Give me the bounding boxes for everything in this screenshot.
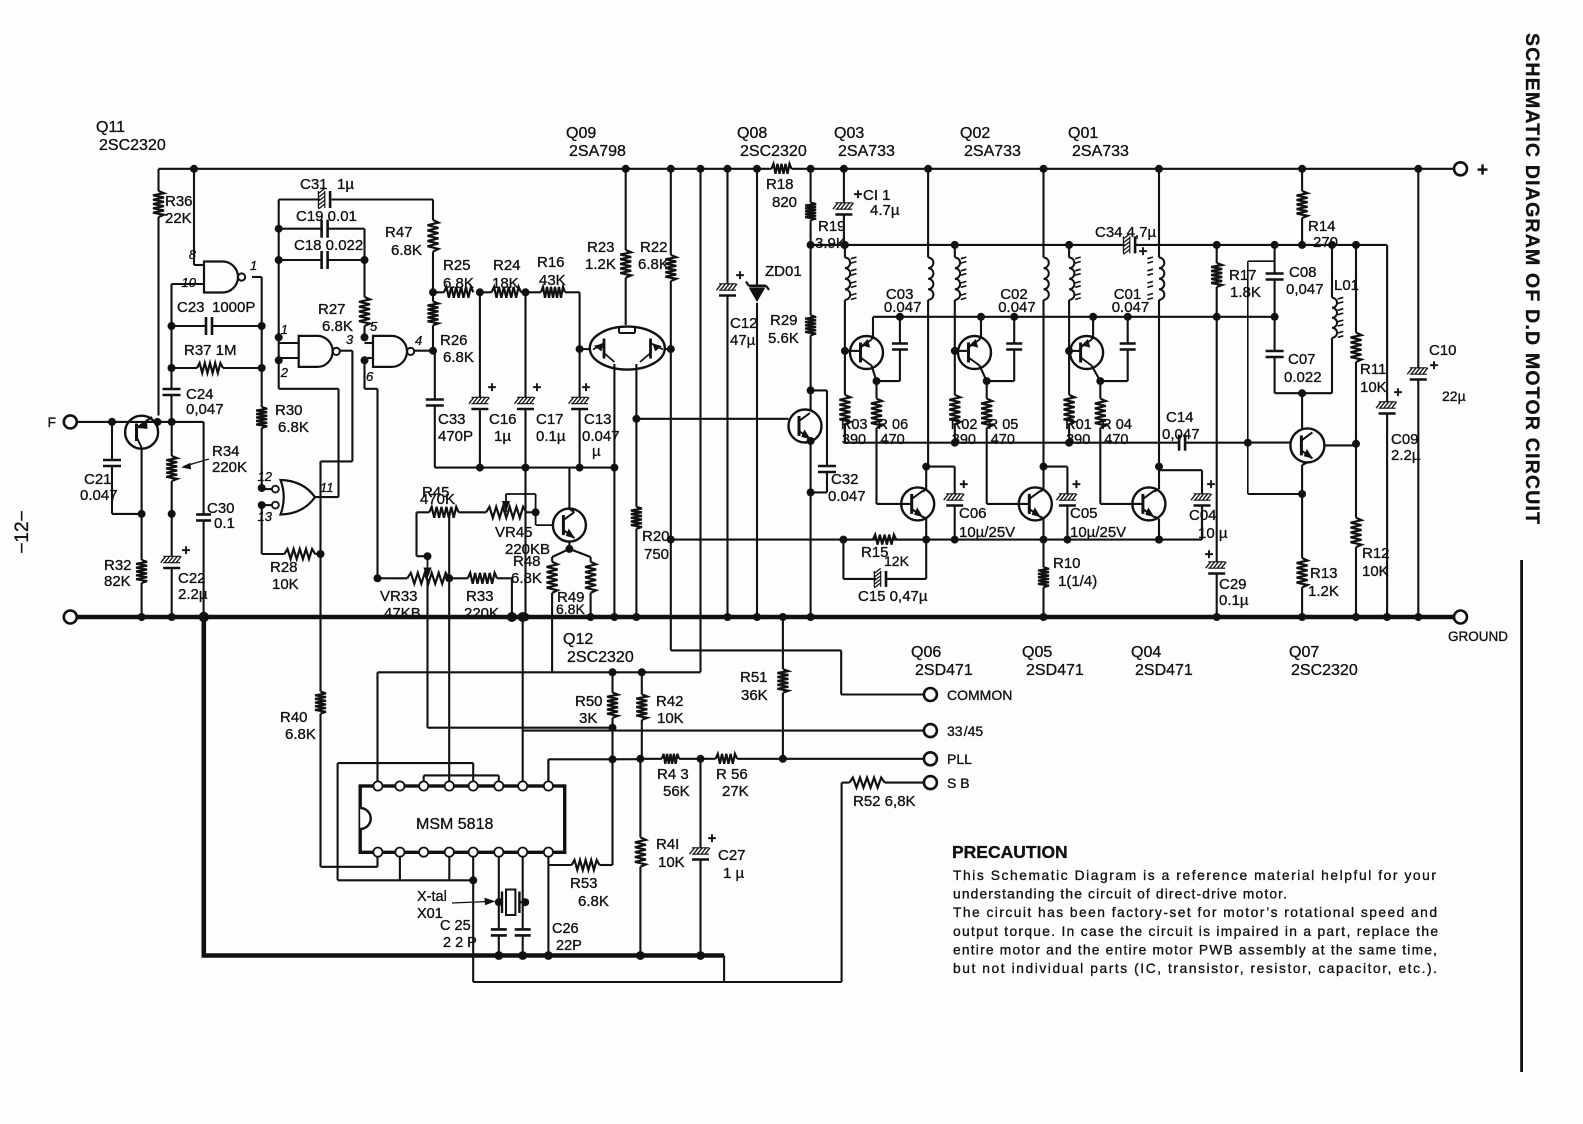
resistor R24 — [480, 287, 529, 298]
svg-text:R19: R19 — [818, 218, 846, 235]
resistor R01 — [1064, 351, 1092, 448]
label schematic title — [1521, 33, 1543, 525]
wire emitter row — [138, 510, 176, 518]
svg-text:C16: C16 — [489, 411, 517, 428]
svg-text:+: + — [1207, 476, 1216, 493]
capacitor C23 — [168, 299, 266, 335]
svg-text:C15 0,47µ: C15 0,47µ — [858, 588, 928, 605]
wire top supply rail — [159, 168, 1455, 170]
terminal 33/45 — [924, 723, 984, 739]
wire collector3 — [1092, 366, 1101, 399]
svg-text:1.2K: 1.2K — [585, 256, 616, 273]
svg-text:X01: X01 — [417, 906, 443, 922]
resistor R26 — [428, 292, 474, 366]
svg-text:C05: C05 — [1070, 505, 1098, 522]
wire nand3 out — [414, 347, 437, 355]
wire pin7b col — [518, 612, 528, 929]
resistor R02 — [949, 351, 977, 448]
resistor R52 — [842, 778, 924, 810]
node bus C13 — [576, 464, 584, 472]
svg-text:12: 12 — [258, 469, 273, 484]
wire emitter2 top — [980, 317, 982, 340]
resistor R25 — [433, 254, 565, 298]
label Q05 — [1022, 644, 1084, 679]
resistor R49 — [556, 557, 596, 621]
wire Q09 bottom right — [635, 364, 637, 419]
node erow c3 — [1089, 313, 1097, 321]
svg-text:2SC2320: 2SC2320 — [1291, 662, 1358, 679]
wire Q12 emitter split — [552, 542, 591, 557]
svg-text:C12: C12 — [730, 315, 758, 332]
resistor R16 — [529, 287, 580, 349]
svg-text:R 04: R 04 — [1101, 417, 1132, 433]
capacitor C18 — [275, 237, 369, 269]
resistor R20 — [631, 419, 670, 621]
svg-text:22P: 22P — [556, 938, 582, 954]
transistor Q05 lower — [987, 487, 1052, 520]
node Q11 collector — [154, 418, 162, 426]
resistor R 06 — [871, 399, 908, 504]
node collector3 — [1096, 377, 1104, 385]
svg-text:PRECAUTION: PRECAUTION — [952, 842, 1068, 862]
svg-text:C10: C10 — [1429, 342, 1457, 359]
svg-text:C07: C07 — [1288, 351, 1316, 368]
svg-text:1: 1 — [250, 258, 257, 273]
svg-text:1µ: 1µ — [337, 176, 354, 193]
label Q12 — [563, 631, 634, 666]
capacitor C22 — [161, 514, 208, 617]
svg-text:220K: 220K — [464, 605, 499, 622]
svg-text:2SA798: 2SA798 — [569, 143, 626, 160]
capacitor C16 — [469, 292, 517, 467]
svg-text:+: + — [1072, 476, 1081, 493]
resistor R 04 — [1095, 399, 1132, 504]
node R17 erow — [1213, 313, 1221, 321]
svg-text:750: 750 — [644, 546, 669, 563]
svg-text:6.8K: 6.8K — [578, 893, 609, 910]
svg-text:C33: C33 — [438, 411, 466, 428]
wire bridge pins3-6 — [424, 775, 499, 781]
wire lower collector2 — [1040, 463, 1048, 492]
wire bus C33 — [435, 467, 615, 469]
wire pin8 — [194, 169, 204, 265]
svg-text:VR45: VR45 — [495, 524, 533, 541]
svg-text:R 56: R 56 — [716, 766, 748, 783]
wire Q09 right lead — [665, 345, 675, 353]
svg-text:R24: R24 — [493, 257, 521, 274]
potentiometer VR45 — [486, 494, 550, 558]
resistor R37 — [168, 326, 266, 373]
wire second rail — [811, 244, 1388, 246]
wire R52 drop — [473, 783, 841, 982]
label Q07 — [1289, 644, 1358, 679]
wire R0x bus — [845, 424, 1179, 443]
node base3 — [1065, 347, 1073, 355]
node Q08 base line — [632, 415, 640, 423]
svg-text:R4 3: R4 3 — [657, 766, 689, 783]
wire PLL line — [548, 755, 640, 786]
wire R30 to R28 — [262, 505, 285, 554]
svg-text:X-tal: X-tal — [417, 889, 447, 905]
svg-text:R32: R32 — [104, 557, 132, 574]
svg-text:Q07: Q07 — [1289, 644, 1319, 661]
wire collector2 jog — [987, 355, 1015, 381]
svg-text:C21: C21 — [84, 471, 112, 488]
svg-text:C26: C26 — [552, 921, 579, 937]
crystal X01 — [417, 857, 529, 929]
svg-text:GROUND: GROUND — [1448, 629, 1508, 644]
svg-text:470: 470 — [991, 432, 1015, 448]
potentiometer VR33 wiper — [424, 556, 431, 577]
svg-text:R 06: R 06 — [878, 417, 909, 433]
wire C-jog2 — [1044, 466, 1068, 468]
node C21 tap — [108, 418, 116, 426]
node bus R01 — [1065, 439, 1073, 447]
wire emitter3 top — [1092, 317, 1094, 340]
svg-text:R22: R22 — [640, 239, 668, 256]
svg-text:+: + — [533, 379, 542, 396]
terminal ground left — [64, 611, 77, 624]
svg-text:1.2K: 1.2K — [1308, 583, 1339, 600]
node R47 R25 — [429, 288, 437, 296]
inductor phase coil A1 — [845, 245, 857, 351]
label Q02 — [960, 125, 1021, 160]
node erow c2 — [977, 313, 985, 321]
terminal COMMON — [924, 687, 1012, 703]
svg-text:8: 8 — [189, 247, 197, 262]
wire thick ground branch — [202, 617, 725, 956]
capacitor C34 — [1095, 224, 1157, 260]
wire coilB1 riser — [924, 165, 932, 258]
svg-text:R20: R20 — [642, 528, 670, 545]
svg-text:ZD01: ZD01 — [765, 263, 802, 280]
capacitor C26 — [515, 921, 582, 960]
node bus C16 — [476, 464, 484, 472]
label C05 — [1070, 505, 1126, 541]
wire wiper row — [428, 727, 613, 729]
svg-text:R30: R30 — [275, 402, 303, 419]
wire emitter1 top — [872, 317, 874, 340]
svg-text:MSM 5818: MSM 5818 — [416, 816, 493, 833]
resistor R34 — [166, 422, 247, 514]
svg-text:Q09: Q09 — [566, 125, 596, 142]
svg-text:470P: 470P — [438, 428, 473, 445]
svg-text:3: 3 — [346, 332, 354, 347]
resistor R53 — [548, 860, 608, 910]
svg-text:R29: R29 — [770, 312, 798, 329]
svg-text:C06: C06 — [959, 505, 987, 522]
resistor R45 — [417, 484, 487, 518]
capacitor C09 — [1376, 384, 1421, 621]
svg-text:10µ/25V: 10µ/25V — [959, 524, 1015, 541]
svg-text:10K: 10K — [1360, 379, 1387, 396]
wire R45 left drop — [417, 512, 432, 560]
node base1 — [841, 347, 849, 355]
svg-text:Q11: Q11 — [96, 119, 125, 136]
wire R22 col down common — [670, 349, 672, 650]
node R34 top — [168, 418, 176, 426]
svg-text:2SA733: 2SA733 — [838, 143, 895, 160]
svg-text:Q05: Q05 — [1022, 644, 1052, 661]
wire R28 down to R40 — [319, 554, 321, 692]
capacitor C14 — [1162, 409, 1248, 451]
svg-text:R26: R26 — [440, 332, 468, 349]
transistor Q07 — [1290, 393, 1324, 462]
node bus C17 — [522, 464, 530, 472]
wire collector1 — [872, 366, 877, 399]
svg-text:2 2 P: 2 2 P — [443, 935, 477, 951]
svg-text:1µ: 1µ — [494, 428, 511, 445]
svg-text:Q12: Q12 — [563, 631, 593, 648]
node ground C22 — [168, 613, 176, 621]
svg-text:10K: 10K — [658, 854, 685, 871]
resistor R 05 — [981, 399, 1018, 504]
svg-text:C09: C09 — [1391, 431, 1419, 448]
label R25 value — [0, 0, 1, 1]
svg-text:56K: 56K — [663, 783, 690, 800]
svg-text:2: 2 — [280, 365, 289, 380]
capacitor C05 — [1056, 467, 1081, 544]
node coil1 rail2 — [841, 241, 849, 249]
node R42 PLL — [636, 755, 644, 763]
nand gate U1b — [275, 322, 354, 380]
wire C-jog3 — [1159, 467, 1202, 471]
label R45 value — [0, 0, 1, 1]
terminal PLL — [924, 751, 972, 767]
capacitor C31 — [279, 176, 433, 209]
label Q09 — [566, 125, 626, 160]
svg-text:C32: C32 — [831, 471, 859, 488]
node R51 PLL — [779, 755, 787, 763]
capacitor C08 — [1266, 241, 1324, 317]
svg-text:S B: S B — [947, 775, 970, 791]
node Q08 collector — [807, 386, 815, 394]
inductor phase coil A3 — [1069, 245, 1081, 351]
capacitor C15 — [843, 540, 927, 605]
resistor R15 — [839, 535, 926, 569]
svg-text:6.8K: 6.8K — [391, 242, 422, 259]
resistor R33 — [449, 573, 517, 622]
wire lower emitter1 — [922, 517, 930, 544]
svg-text:R25: R25 — [443, 257, 471, 274]
node R24 R16 — [522, 288, 530, 296]
svg-text:47µ: 47µ — [730, 332, 756, 349]
svg-text:6.8K: 6.8K — [285, 726, 316, 743]
resistor R41 — [635, 759, 685, 960]
resistor R36 — [153, 169, 193, 416]
resistor R18 — [766, 164, 797, 211]
node coil2 rail2 — [951, 241, 959, 249]
svg-text:R51: R51 — [740, 669, 768, 686]
wire common route — [671, 650, 924, 694]
transistor Q01 upper — [1069, 336, 1103, 369]
svg-text:Q04: Q04 — [1131, 644, 1161, 661]
svg-text:PLL: PLL — [947, 751, 972, 767]
wire VR33R down pin4 — [448, 578, 450, 786]
svg-text:1(1/4): 1(1/4) — [1058, 573, 1097, 590]
wire Q07 base bus — [1248, 442, 1291, 444]
resistor R28 — [270, 549, 325, 593]
wire VR33 left — [374, 574, 391, 582]
svg-text:0.047: 0.047 — [828, 488, 866, 505]
wire coilB2 riser — [1040, 165, 1048, 258]
wire R17 col down — [1216, 317, 1218, 562]
svg-text:F: F — [47, 414, 56, 430]
svg-text:1: 1 — [281, 322, 288, 337]
svg-text:output torque. In case the cir: output torque. In case the circuit is im… — [953, 924, 1438, 939]
svg-text:Q01: Q01 — [1068, 125, 1098, 142]
svg-text:470: 470 — [1104, 432, 1128, 448]
capacitor C29 — [1205, 546, 1249, 621]
resistor R42 — [636, 672, 683, 758]
svg-text:+: + — [488, 379, 497, 396]
svg-text:C08: C08 — [1289, 264, 1317, 281]
svg-text:R17: R17 — [1229, 267, 1257, 284]
svg-text:R11: R11 — [1360, 361, 1386, 378]
svg-text:6.8K: 6.8K — [443, 349, 474, 366]
svg-text:R12: R12 — [1362, 545, 1390, 562]
gate U1d nor — [258, 469, 334, 524]
svg-text:+: + — [1394, 384, 1403, 401]
svg-text:4.7µ: 4.7µ — [870, 202, 900, 219]
svg-text:R27: R27 — [318, 301, 346, 318]
svg-text:10K: 10K — [272, 576, 299, 593]
terminal ground right — [1448, 611, 1508, 645]
node bus Q07base — [1244, 439, 1252, 447]
svg-text:13: 13 — [258, 509, 273, 524]
svg-text:27K: 27K — [722, 783, 749, 800]
svg-text:0.022: 0.022 — [1284, 369, 1322, 386]
node bus R02 — [951, 439, 959, 447]
svg-text:µ: µ — [592, 443, 601, 460]
node R56 left — [697, 755, 705, 763]
wire R53 col — [600, 759, 613, 865]
svg-text:R40: R40 — [280, 709, 308, 726]
svg-text:R13: R13 — [1310, 565, 1338, 582]
capacitor C01 — [1112, 286, 1150, 355]
node VR33 right — [445, 574, 453, 582]
wire column 700 top — [697, 165, 705, 673]
svg-text:+: + — [182, 542, 191, 559]
svg-text:R48: R48 — [513, 553, 541, 570]
svg-text:C22: C22 — [178, 570, 206, 587]
resistor R48 — [511, 553, 558, 672]
svg-text:R37 1M: R37 1M — [184, 342, 237, 359]
wire C19 right column — [363, 229, 365, 297]
wire VR33R up — [448, 512, 450, 578]
node row R50 — [609, 668, 617, 676]
svg-text:R52 6,8K: R52 6,8K — [853, 793, 916, 810]
svg-text:+: + — [736, 267, 745, 284]
svg-text:0,047: 0,047 — [1162, 426, 1200, 443]
svg-text:R14: R14 — [1308, 218, 1336, 235]
transistor Q08 — [789, 390, 822, 442]
resistor R50 — [575, 672, 618, 727]
node bus Q09 — [610, 464, 618, 472]
wire rail2 corner C09 — [1386, 245, 1388, 402]
svg-text:R42: R42 — [656, 693, 684, 710]
inductor phase coil B1 — [928, 258, 933, 467]
svg-text:C34 4,7µ: C34 4,7µ — [1095, 224, 1157, 241]
svg-text:R10: R10 — [1053, 555, 1081, 572]
capacitor C30 — [196, 422, 235, 617]
svg-text:5.6K: 5.6K — [768, 330, 799, 347]
wire pin5b col — [472, 857, 474, 982]
resistor R23 — [585, 165, 631, 325]
inductor L01 — [1328, 241, 1359, 393]
label Q04 — [1131, 644, 1193, 679]
svg-text:2SD471: 2SD471 — [915, 662, 973, 679]
wire feedback right — [1044, 506, 1203, 544]
capacitor C19 — [275, 208, 365, 238]
wire nand1 output — [252, 277, 262, 326]
wire emitter row — [873, 316, 1275, 318]
wire collector1 jog — [877, 355, 900, 381]
svg-text:2SD471: 2SD471 — [1026, 662, 1084, 679]
resistor R12 — [1351, 444, 1390, 621]
svg-text:470K: 470K — [420, 491, 455, 508]
node R14 rail2 — [1298, 241, 1306, 249]
svg-text:10K: 10K — [657, 710, 684, 727]
wire nand2 out loop — [321, 351, 353, 554]
svg-text:10: 10 — [182, 275, 197, 290]
transistor Q06 lower — [877, 487, 935, 520]
wire PLL to term — [783, 758, 924, 760]
svg-text:0,047: 0,047 — [186, 401, 224, 418]
svg-text:5: 5 — [370, 319, 378, 334]
svg-text:C19 0.01: C19 0.01 — [296, 208, 357, 225]
label Q03 — [834, 125, 895, 160]
wire Q12 base — [536, 512, 553, 525]
svg-text:220K: 220K — [212, 459, 247, 476]
svg-text:C 25: C 25 — [440, 918, 471, 934]
node ground R32 — [138, 613, 146, 621]
transistor Q04 lower — [1100, 487, 1165, 520]
svg-text:2.2µ: 2.2µ — [1391, 447, 1421, 464]
svg-text:COMMON: COMMON — [947, 687, 1012, 703]
svg-text:0.1µ: 0.1µ — [536, 428, 566, 445]
svg-text:R16: R16 — [537, 254, 565, 271]
wire lower collector1 — [922, 463, 930, 492]
svg-text:82K: 82K — [104, 573, 131, 590]
svg-text:6.8K: 6.8K — [638, 256, 669, 273]
wire 3345 line — [523, 730, 924, 732]
node base2 — [951, 347, 959, 355]
wire C-jog1 — [926, 466, 955, 468]
svg-text:0.047: 0.047 — [998, 299, 1036, 316]
wire row668 — [378, 671, 701, 673]
svg-text:+: + — [708, 830, 717, 847]
svg-text:2SC2320: 2SC2320 — [99, 137, 166, 154]
svg-text:1 µ: 1 µ — [723, 865, 745, 882]
wire F input line — [77, 421, 204, 423]
capacitor C24 — [163, 368, 224, 422]
resistor R11 — [1351, 241, 1387, 443]
node R25 R24 — [476, 288, 484, 296]
svg-text:0.1µ: 0.1µ — [1219, 592, 1249, 609]
capacitor C07 — [1266, 317, 1322, 393]
svg-text:R23: R23 — [587, 239, 615, 256]
node collector2 — [983, 377, 991, 385]
transistor Q11 — [125, 416, 158, 514]
wire pin7 top riser — [522, 617, 524, 781]
svg-text:R47: R47 — [385, 224, 413, 241]
svg-text:1000P: 1000P — [212, 299, 255, 316]
svg-text:entire motor and the entire mo: entire motor and the entire motor PWB as… — [953, 942, 1437, 957]
svg-text:C29: C29 — [1219, 576, 1247, 593]
resistor R27 — [318, 297, 370, 337]
capacitor C11 — [833, 165, 900, 245]
